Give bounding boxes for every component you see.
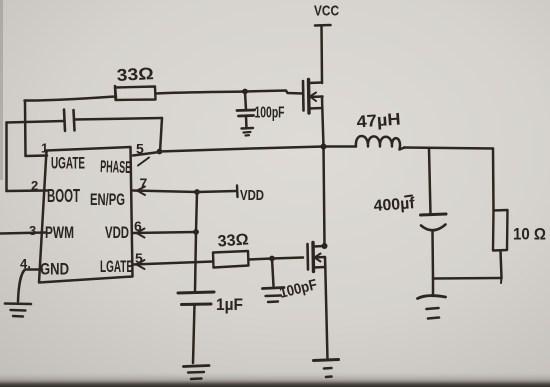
wire node G1 down to C2 — [245, 92, 246, 110]
svg-text:VDD: VDD — [240, 188, 264, 204]
svg-text:UGATE: UGATE — [51, 154, 85, 173]
svg-text:BOOT: BOOT — [47, 186, 80, 206]
node G1 junction dot — [242, 89, 248, 95]
svg-text:3: 3 — [29, 223, 36, 238]
capacitor C5 curved plate — [421, 225, 446, 231]
resistor R1 33ohm body — [115, 87, 156, 101]
wire node VDD2 down to C3 — [195, 232, 196, 292]
wire corner down to R3 — [492, 149, 495, 211]
svg-text:2: 2 — [31, 178, 38, 193]
wire node VDD vertical to pin6 node — [196, 192, 197, 232]
C5 polarity bar — [405, 196, 412, 197]
wire left bracket vertical pin1 — [24, 102, 27, 157]
wire C3 to ground G2 — [193, 305, 195, 364]
transistor Q2 drain stub — [314, 245, 325, 248]
wire Q2 drain up to phase node B — [324, 147, 325, 247]
svg-text:LGATE: LGATE — [100, 257, 133, 276]
node C junction dot — [269, 256, 275, 262]
transistor Q1 source stub — [309, 107, 322, 110]
wire VCC down to Q1 drain — [320, 26, 323, 83]
svg-text:VDD: VDD — [105, 223, 129, 242]
node VDD2 junction dot — [193, 229, 199, 235]
VCC terminal T bar — [315, 24, 331, 27]
transistor Q2 gate bar — [306, 244, 309, 270]
transistor Q1 gate bar — [302, 81, 305, 111]
wire pin6 VDD stub — [133, 232, 196, 233]
wire node VDD to VDD tick — [197, 191, 237, 192]
capacitor C2 100pF plates — [237, 109, 255, 112]
wire R1 right to node G1 — [156, 92, 246, 94]
svg-text:PHASE: PHASE — [100, 157, 132, 177]
wire pin2 BOOT stub — [7, 189, 48, 192]
wire pin5 PHASE stub — [133, 152, 160, 156]
wire node G1 to Q1 gate — [245, 91, 303, 94]
resistor R2 33ohm body — [213, 251, 249, 268]
node D drain junction dot — [322, 243, 328, 249]
transistor Q1 channel bar — [307, 80, 311, 114]
wire C1 right plate to node A — [75, 118, 163, 120]
resistor R3 10ohm body — [493, 210, 508, 251]
transistor Q2 source stub — [314, 266, 326, 269]
wire C2 to ground — [245, 116, 248, 128]
VDD tick — [236, 186, 239, 198]
capacitor C3 1uF plates — [178, 292, 214, 293]
svg-text:33Ω: 33Ω — [217, 231, 249, 250]
wire Q1 source down to phase node B — [322, 97, 324, 147]
ground under C2 — [242, 127, 254, 130]
wire R3 down to bottom rail — [501, 251, 502, 279]
svg-text:400µf: 400µf — [373, 195, 416, 215]
svg-text:EN/PG: EN/PG — [90, 190, 125, 209]
svg-text:1µF: 1µF — [216, 295, 243, 314]
wire corner down to node A — [160, 118, 162, 152]
wire rail to ground G4 — [432, 279, 435, 297]
wire pin7 EN/PG to node VDD — [133, 191, 197, 193]
node VDD junction dot — [194, 189, 200, 195]
wire pin4 GND stub — [25, 268, 42, 271]
node B phase junction dot — [321, 144, 327, 150]
pin7 arrowhead — [137, 187, 145, 196]
bottom rail end hook — [500, 278, 503, 283]
wire UGATE pin1 to R1 left — [25, 86, 117, 101]
pin5 LGATE arrowhead — [137, 260, 145, 269]
wire L1 to output corner — [404, 148, 493, 149]
wire left bracket vertical pin2 — [5, 123, 8, 192]
pin6 arrowhead — [137, 229, 145, 238]
svg-text:1: 1 — [41, 141, 48, 156]
svg-text:PWM: PWM — [45, 223, 74, 242]
capacitor C4 100pF plates with ground — [263, 288, 285, 289]
capacitor C5 400uF top plate — [421, 214, 447, 215]
ground G1 bottom-left — [5, 302, 31, 305]
capacitor C1 bootstrap plates — [64, 110, 65, 132]
svg-text:10 Ω: 10 Ω — [513, 225, 546, 244]
ground G3 under Q2 — [314, 360, 339, 361]
wire pin4 down to ground — [18, 270, 25, 302]
wire bottom rail — [433, 277, 502, 280]
svg-text:47µH: 47µH — [356, 109, 401, 131]
wire phase line node A to node B — [160, 147, 324, 152]
wire R2 to node C — [249, 259, 273, 260]
wire pin3 PWM from left edge — [0, 233, 46, 234]
ground G4 under C5 — [418, 296, 446, 299]
inductor L1 47uH coil — [324, 136, 405, 150]
pin5 arrow slash — [138, 158, 149, 166]
op-amp U1 controller IC body — [39, 147, 133, 283]
transistor Q2 channel bar — [311, 243, 315, 272]
wire C1 left plate to bracket — [7, 121, 65, 123]
wire Q2 source down to ground G3 — [325, 258, 328, 360]
wire C5 down to bottom rail — [431, 232, 434, 279]
wire output node down to C5 — [429, 149, 431, 215]
transistor Q1 body stub with arrow — [309, 95, 323, 98]
svg-text:GND: GND — [40, 260, 69, 279]
transistor Q2 body stub with arrow — [314, 256, 326, 259]
node A junction dot phase pin — [157, 149, 163, 155]
wire node C to Q2 gate — [272, 258, 303, 259]
svg-text:33Ω: 33Ω — [116, 64, 154, 85]
wire pin5 LGATE to R2 — [133, 262, 213, 265]
svg-text:5: 5 — [136, 141, 144, 157]
svg-text:VCC: VCC — [314, 3, 339, 20]
svg-text:100pF: 100pF — [255, 105, 285, 122]
wire node C down to C4 — [272, 259, 274, 287]
ground G2 under C3 — [184, 366, 210, 367]
wire pin1 stub — [26, 154, 48, 157]
transistor Q1 drain stub — [309, 81, 322, 84]
